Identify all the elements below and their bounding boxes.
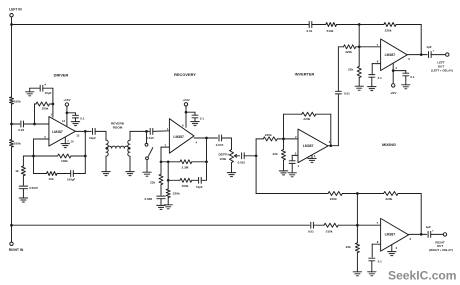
ground (U3 noninv) [288,172,296,174]
capacitor C9 0.068 [157,195,165,197]
wire delay riser lower [337,95,339,146]
resistor R19 220k (U5 fb) [384,192,398,196]
node RIGHT IN terminal [10,242,13,245]
svg-text:100k: 100k [61,159,68,163]
op-amp U1 LM387 (driver) [49,117,76,147]
capacitor C1 0.02 (driver input) [20,121,22,127]
wire 1k to cap [22,176,24,186]
wire riser to inverter input [255,139,257,156]
resistor R16 220k (delay to U4) [344,45,356,49]
wire bias stub [35,103,37,105]
node feedback top junction [84,155,87,158]
wire tank to switch junction [130,130,149,132]
node line A junction [358,23,361,26]
wire tank output lower [129,156,131,171]
wire supply to U2 pin 6 [185,112,187,127]
svg-text:1µF: 1µF [426,45,432,49]
wire fb riser to output [206,138,208,162]
node U1 output junction [84,130,87,133]
node LEFT IN terminal [10,14,13,17]
ground (220k) [164,204,172,206]
wire cap to ground (U4 noninv) [371,77,373,86]
wire cap to 510k [312,24,326,26]
node +24V terminal [184,103,187,106]
svg-text:0.02: 0.02 [18,128,24,132]
node LEFT OUT terminal [446,53,449,56]
svg-text:0.015: 0.015 [238,160,246,164]
wire bypass to ground (pin4) [405,76,407,85]
node U4 pin4 junction [392,69,395,72]
svg-text:100µF: 100µF [67,177,75,181]
svg-text:(RIGHT + DELAY): (RIGHT + DELAY) [429,248,453,252]
wire A-B riser [358,25,360,47]
node supply junction [66,111,69,114]
resistor R8 22k [159,174,163,185]
node fb right junction [205,160,208,163]
node -24V terminal [392,84,395,87]
ground (U3) [308,157,316,159]
wire cap right lead [43,87,53,89]
wire into driver +input [35,123,49,125]
ground (U4 22k) [355,85,363,87]
svg-text:ROOM: ROOM [113,126,123,130]
resistor R20 510k (bottom) [324,223,338,227]
wire fb right [71,155,85,157]
svg-text:+15V: +15V [63,98,71,102]
capacitor C17 0.1 (pin4 bypass) [403,72,409,74]
capacitor C6 100uF [70,171,72,177]
wire U3 noninv input [292,154,298,156]
wire U4 output [407,54,427,56]
wire 220k to U4 input [356,46,381,48]
svg-text:RECOVERY: RECOVERY [174,72,196,77]
node spring left [105,147,108,150]
wire fb line 1 left [161,161,180,163]
svg-text:0.068: 0.068 [145,197,153,201]
node sum junction [10,123,13,126]
svg-text:0.0047: 0.0047 [29,186,38,190]
wire fb left [34,155,58,157]
resistor R4 100k (feedback) [58,154,71,158]
wire bias resistor to riser [50,103,53,105]
svg-text:LM387: LM387 [52,130,63,134]
node driver input junction [33,123,36,126]
svg-text:100k: 100k [14,99,21,103]
ground (switch) [143,171,151,173]
svg-text:7, 10: 7, 10 [67,140,74,144]
svg-text:(LEFT + DELAY): (LEFT + DELAY) [431,68,453,72]
wire junction to fb resistor [359,24,384,26]
node right-in junction [10,224,13,227]
svg-text:-24V: -24V [390,91,397,95]
inductor spring coil [108,146,129,148]
svg-text:LEFT IN: LEFT IN [9,7,22,11]
ground (U4 pin4) [402,84,410,86]
wire fb line 1 right [192,161,207,163]
wire RIGHT IN stub [11,225,13,242]
capacitor C20 0.1 (U5 noninv) [369,257,375,259]
wire U5 output [409,233,427,235]
wire 510k to junction D [338,224,380,226]
wire cap to ground (U5 noninv) [371,261,373,272]
node switch junction [145,130,148,133]
wire cap to pot corner [222,137,232,139]
capacitor C11 0.015 (depth) [218,135,220,141]
wire supply bypass branch [67,112,76,114]
ground (pot) [227,172,235,174]
wire cap to tank [95,130,106,132]
node U3 output junction [329,144,332,147]
svg-text:SeekIC.com: SeekIC.com [388,269,457,283]
node RIGHT OUT terminal [443,233,446,236]
svg-text:0.015: 0.015 [146,136,154,140]
wire 22k to ground U4 [358,78,360,87]
capacitor C7 0.015 (recovery in) [149,128,151,134]
wire fb to corner U5 [398,193,421,195]
svg-text:14: 14 [62,119,66,123]
resistor R3 100k (driver bias) [36,102,50,106]
svg-text:1k: 1k [15,169,19,173]
switch SW1 contact top [145,143,148,146]
wire ground stub [29,88,31,92]
wire 22k drop [160,162,162,174]
wire 220k drop [167,162,169,189]
ground (1k branch) [19,197,27,199]
capacitor C16 0.1 (U4 noninv) [369,74,375,76]
wire pot to ground [231,163,233,173]
node 220k junction [167,179,170,182]
wire supply stub [66,106,68,113]
node fb mid junction [167,160,170,163]
wire U1 ground stub [64,137,66,144]
wire 510k to junction [337,24,360,26]
svg-text:2.2M: 2.2M [182,166,189,170]
resistor R21 22k (U5) [355,243,359,253]
wire switch stub [146,131,148,143]
capacitor C10 10uF [198,177,200,183]
node left-in junction [10,23,13,26]
resistor R2 100k (right sum) [10,139,14,147]
svg-text:220k: 220k [345,50,352,54]
resistor R12 22k (inverter) [282,150,286,161]
ground (U4 noninv) [368,86,376,88]
capacitor C5 0.0047 [19,185,27,187]
svg-text:0.1: 0.1 [200,116,205,120]
svg-text:510k: 510k [327,29,334,33]
wiper arrow [235,155,240,157]
resistor R7 2.2M [180,160,192,164]
node U2 output junction [205,137,208,140]
ground (0.068) [157,204,165,206]
svg-text:0.01: 0.01 [307,29,313,33]
wire 22k drop U4 [358,47,360,67]
wire U3 ground stub [311,155,313,159]
svg-text:LM387: LM387 [385,53,396,57]
wire switch to ground [146,160,148,172]
ground (driver supply) [71,121,79,123]
resistor R1 100k (left sum) [10,97,14,104]
capacitor C12 0.015 (inverter feed) [241,153,243,159]
wire U5 ground stub [391,245,393,252]
ground (U5 noninv) [368,271,376,273]
svg-text:13: 13 [76,134,80,138]
svg-text:22k: 22k [346,245,351,249]
wire top line left-in to coupling cap [12,24,310,26]
wire cap to ground U3 [291,163,293,172]
svg-text:0.1: 0.1 [410,75,415,79]
wire fb line 2 left [168,179,180,181]
capacitor C14 0.01 (delay riser) [335,90,341,92]
svg-text:0.1: 0.1 [378,260,383,264]
node inv junction [32,155,35,158]
potentiometer DEPTH 100k [230,150,234,163]
svg-text:LM387: LM387 [173,135,184,139]
ground (U1) [61,143,69,145]
ground (U5) [388,251,396,253]
svg-text:0.1: 0.1 [378,76,383,80]
wire wiper cap right [244,155,256,157]
svg-text:+: + [432,228,434,232]
resistor R13 220k (inverter fb) [302,112,316,116]
wire U4 noninv input [372,63,380,65]
capacitor C2 10uF (bias bypass) [39,85,41,91]
wire cap to ground [30,87,41,89]
node spring right [128,147,131,150]
capacitor C21 1uF (right out) [427,231,429,237]
svg-text:22k: 22k [150,181,155,185]
wire 220k to junction C [342,193,383,195]
svg-text:220k: 220k [385,29,392,33]
resistor R5 1k [21,166,25,176]
wire cap to ground (0.068) [160,199,162,206]
wire fb line2 to cap [192,179,199,181]
svg-text:+: + [432,49,434,53]
wire tank input lower [105,156,107,171]
svg-text:0.1: 0.1 [80,116,85,120]
svg-text:22k: 22k [348,68,353,72]
wire U2 output [194,137,218,139]
wire tank output corner [129,131,131,140]
svg-text:+24V: +24V [182,98,190,102]
wire 10k branch drop [33,156,35,174]
svg-text:MIXING: MIXING [382,142,396,147]
svg-text:DRIVER: DRIVER [54,73,69,78]
node U4 output junction [420,53,423,56]
node U5 output junction [420,233,423,236]
node +15V terminal [65,103,68,106]
node delay split junction [255,154,258,157]
wire cap to U2 input [153,130,170,133]
wire U4 pin4 stub [392,63,394,70]
wire bottom line right-in to mixer [12,224,310,226]
svg-text:10µF: 10µF [45,91,52,95]
wire U5 noninv input [372,243,380,245]
svg-text:10k: 10k [49,177,54,181]
ground (U5 22k) [353,271,361,273]
wire 22k to ground [283,160,285,171]
wire bias riser [52,88,54,117]
node line C junction [356,192,359,195]
resistor R9 220k [166,189,170,198]
capacitor C19 0.01 (right in coupling) [310,222,312,228]
node U2 fb node [160,160,163,163]
wire supply bypass branch U2 [186,111,195,113]
wire U2 inverting input [161,146,169,148]
capacitor C15 0.01 (left in coupling) [308,22,310,28]
op-amp U3 LM387 (inverter) [298,129,328,163]
resistor R11 220k (inverter in) [263,137,277,141]
wire bias node riser [34,104,36,124]
resistor R15 220k (U4 fb) [384,23,396,27]
wire fb to corner U4 [396,24,421,26]
svg-text:LM387: LM387 [303,144,314,148]
svg-text:10µF: 10µF [89,136,96,140]
wire fb line 2 right [201,179,206,181]
capacitor C13 (noninv bypass) [289,160,295,162]
switch SW1 arm [148,148,152,157]
resistor R17 22k (U4) [357,66,361,77]
resistor R6 10k [47,172,58,176]
svg-text:22k: 22k [273,152,278,156]
wire U1 output [75,130,91,132]
wire supply stub U2 [185,106,187,112]
wire cap up to output node [73,173,85,175]
wire left rail upper [11,25,13,97]
wire 220k to node [277,138,298,140]
op-amp U4 LM387 (left mixer) [381,39,408,71]
wire cap to 510k (bottom) [313,224,324,226]
node line D junction [356,224,359,227]
wire cap to bias node [24,123,35,125]
op-amp U5 LM387 (right mixer) [381,218,409,251]
wire cap to terminal [431,54,446,56]
capacitor C8 (U2 bypass) [192,114,198,116]
wire delay riser to line C [255,156,257,194]
wire 22k to cap [160,185,162,196]
svg-text:220k: 220k [303,117,310,121]
svg-text:10µF: 10µF [196,185,203,189]
wire pin4 bypass branch [393,70,406,72]
ground (tank output) [126,171,134,173]
capacitor C3 (supply bypass) [73,114,79,116]
wire bypass to ground U2 [194,118,196,122]
wire feedback riser [84,131,86,173]
svg-text:0.01: 0.01 [344,92,350,96]
wire delay riser upper [337,47,339,92]
wire 22k stub top [283,139,285,150]
svg-text:220k: 220k [385,197,392,201]
wire 220k to ground [167,198,169,205]
wire left rail lower [11,147,13,225]
op-amp U2 LM387 (recovery) [169,119,194,154]
wire supply to pin 14 [66,113,68,127]
inductor tank input coil [106,140,108,156]
svg-text:220k: 220k [330,197,337,201]
wire fb to corner [316,113,331,115]
switch SW1 contact bottom [146,157,149,160]
svg-text:0.01: 0.01 [308,230,314,234]
wire pin4 to -24V [392,71,394,84]
wire cap to ground [22,189,24,198]
svg-text:100k: 100k [42,107,49,111]
wire 22k drop U5 [356,225,358,243]
node inverter sum node [282,138,285,141]
resistor R10 100k (U2 fb) [180,178,192,182]
ground (driver bias) [26,91,34,93]
inductor tank output coil [128,140,130,156]
node bias riser junction [52,103,55,106]
resistor R18 220k (delay to line C) [328,192,342,196]
node line B junction [358,45,361,48]
ground (tank input) [102,171,110,173]
capacitor C4 10uF (driver out) [92,128,94,134]
wire bypass to ground [75,118,77,122]
node supply junction U2 [185,111,188,114]
wire 10k to cap [57,173,71,175]
wire tank input corner [105,131,107,140]
svg-text:220k: 220k [173,192,180,196]
wire C-D riser [356,194,358,226]
svg-text:1µF: 1µF [426,225,432,229]
svg-text:INVERTER: INVERTER [295,71,315,76]
wire sum node to cap [12,123,20,125]
capacitor C18 1uF (left out) [428,52,430,58]
wire inverting input riser [33,139,35,156]
wire 1k corner [23,155,33,157]
svg-text:RIGHT IN: RIGHT IN [9,248,24,252]
svg-text:510k: 510k [326,230,333,234]
svg-text:100k: 100k [220,157,227,161]
wire inverter fb riser [283,114,285,139]
svg-text:100k: 100k [182,184,189,188]
wire LEFT IN stub [11,17,13,25]
ground (U2 supply) [191,121,199,123]
wire 22k to ground U5 [356,253,358,272]
resistor R14 510k [326,23,337,27]
svg-text:100k: 100k [14,142,21,146]
svg-text:0.015: 0.015 [216,143,224,147]
wire rail between resistors upper [11,104,13,124]
ground (inverter 22k) [279,170,287,172]
svg-text:+: + [44,83,46,87]
wire U3 output [328,145,338,147]
svg-text:220k: 220k [265,133,272,137]
wire rail between [11,124,13,139]
svg-text:LM387: LM387 [385,233,396,237]
wire cap to terminal (right) [431,233,444,235]
